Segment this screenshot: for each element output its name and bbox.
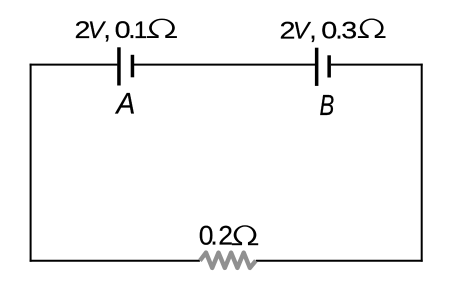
wire: right side of loop bbox=[421, 64, 423, 262]
wire: top right segment bbox=[331, 64, 423, 66]
battery B short plate bbox=[327, 55, 331, 77]
battery A short plate bbox=[131, 55, 135, 78]
label 2V, 0.3 ohm (battery B value) bbox=[280, 14, 386, 44]
wire: top middle segment bbox=[134, 64, 315, 66]
svg-text:B: B bbox=[320, 90, 335, 122]
svg-text:A: A bbox=[115, 88, 136, 121]
label 0.2 ohm (resistor value) bbox=[199, 221, 258, 251]
resistor R 0.2 ohm zigzag bbox=[200, 253, 256, 268]
svg-text:,: , bbox=[103, 14, 111, 44]
svg-text:3: 3 bbox=[341, 17, 357, 44]
svg-text:1: 1 bbox=[134, 17, 148, 44]
battery B long plate bbox=[315, 48, 319, 86]
battery A long plate bbox=[117, 47, 121, 85]
wire: bottom left segment bbox=[30, 260, 200, 262]
wire: bottom right segment bbox=[256, 260, 423, 262]
svg-text:.: . bbox=[210, 221, 217, 251]
svg-text:2: 2 bbox=[218, 221, 233, 251]
svg-text:,: , bbox=[309, 14, 317, 44]
label 2V, 0.1 ohm (battery A value) bbox=[75, 14, 177, 44]
wire: left side of loop bbox=[30, 64, 32, 262]
wire: top left segment bbox=[30, 64, 118, 66]
